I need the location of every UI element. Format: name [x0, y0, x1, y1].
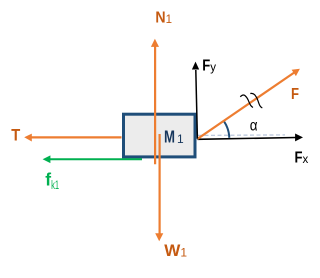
- force N1 (normal force, up orange arrow): [151, 39, 159, 165]
- force F (diagonal orange arrow): [198, 69, 300, 139]
- svg-text:F: F: [291, 86, 299, 103]
- axis Fy (vertical black arrow): [192, 62, 199, 139]
- break mark 2 on F: [250, 93, 262, 108]
- svg-text:T: T: [11, 127, 20, 145]
- break mark 1 on F: [240, 95, 253, 107]
- force W1 (weight, down orange arrow): [155, 134, 163, 241]
- angle arc: [224, 121, 229, 138]
- axis Fx (horizontal black arrow): [198, 134, 304, 142]
- force T (tension, left orange arrow): [24, 134, 121, 142]
- svg-text:α: α: [250, 118, 258, 135]
- force fk1 (kinetic friction, left green arrow): [43, 155, 142, 163]
- box M1: [124, 114, 196, 157]
- dashed horizontal reference line: [198, 134, 285, 137]
